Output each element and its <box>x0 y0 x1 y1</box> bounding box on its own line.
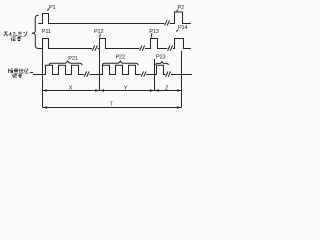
overbrace group P23 <box>156 62 169 65</box>
break mark trace2 c <box>168 46 173 51</box>
svg-text:P2: P2 <box>178 5 185 11</box>
label timing-signal (kanji shingou) fake glyph strokes <box>11 37 21 41</box>
leader tick label P14 <box>176 29 178 31</box>
wire trace3 segment with pulse P23 <box>146 65 165 74</box>
extension line left at x42 <box>42 49 44 108</box>
arrowhead X right <box>95 89 100 91</box>
wire info-signal trace3 group P21 pulses <box>33 65 84 74</box>
arrowhead T right <box>177 106 182 108</box>
extension line x99.5 <box>99 49 101 92</box>
wire trace3 right tail <box>171 74 192 76</box>
extension line x154 <box>154 59 156 91</box>
extension line right at x181.3 <box>181 51 183 108</box>
svg-text:P11: P11 <box>42 29 51 35</box>
leader tick label P12 <box>99 34 102 38</box>
arrowhead Z left <box>155 89 160 91</box>
arrowhead Y right <box>150 89 155 91</box>
arrowhead X left <box>43 89 48 91</box>
svg-text:X: X <box>69 86 73 92</box>
svg-text:P21: P21 <box>68 56 77 62</box>
wire trace2 segment with pulse P14 <box>173 39 191 49</box>
svg-text:P23: P23 <box>156 54 165 60</box>
label info-signal line2 (kanji shingou) fake glyph strokes <box>12 74 22 78</box>
arrowhead Z right <box>177 89 182 91</box>
leader dash info-signal label to trace3 <box>30 72 33 74</box>
dimension line T <box>43 107 182 109</box>
arrowhead T left <box>43 106 48 108</box>
break mark trace3 a <box>84 72 89 77</box>
brace left timing-signal group <box>32 15 39 48</box>
wire trace3 group P22 pulses <box>89 65 140 74</box>
wire trace2 segment with pulse P13 <box>145 39 167 49</box>
overbrace group P22 <box>102 61 138 65</box>
svg-text:P12: P12 <box>94 29 103 35</box>
svg-text:P13: P13 <box>149 29 158 35</box>
svg-text:P14: P14 <box>178 25 187 31</box>
svg-text:P1: P1 <box>49 5 56 11</box>
arrowhead Y left <box>100 89 105 91</box>
svg-text:Y: Y <box>124 85 128 91</box>
dimension line X Y Z <box>43 90 182 92</box>
leader tick label P13 <box>150 33 153 37</box>
break mark trace1 <box>165 20 170 25</box>
svg-text:P22: P22 <box>116 54 125 60</box>
break mark trace2 b <box>140 46 145 51</box>
leader tick label P2 <box>177 10 178 12</box>
break mark trace2 a <box>92 46 97 51</box>
break mark trace3 c <box>166 72 171 77</box>
leader tick label P1 <box>47 9 49 11</box>
wire trace1 right segment with pulse P2 <box>170 12 191 24</box>
overbrace group P21 <box>49 61 82 65</box>
wire timing-signal trace2 left with pulse P11 <box>38 39 92 49</box>
wire trace2 segment with pulse P12 <box>98 39 140 49</box>
wire timing-signal trace1 with pulse P1 <box>38 14 164 24</box>
label info-signal line1 (kanji) fake glyph strokes <box>9 68 29 73</box>
break mark trace3 b <box>141 72 146 77</box>
label timing-signal (katakana taimingu) fake glyph strokes <box>4 31 27 36</box>
